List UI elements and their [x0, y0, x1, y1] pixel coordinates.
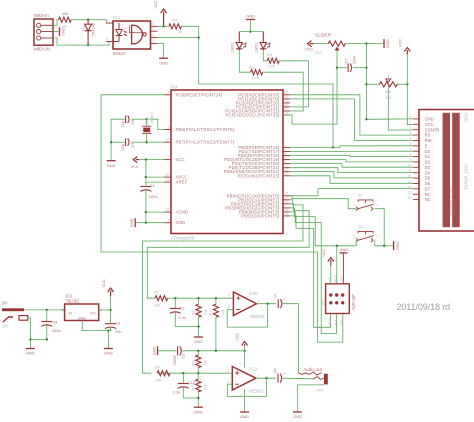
IC1 pin 18 PB4(MISO/PCINT4): [283, 211, 290, 213]
wire R2 to opamp plus: [168, 297, 234, 299]
resistor R6 1.2k: [267, 58, 279, 63]
ground stage2 divider: [194, 406, 203, 408]
op-amp U IC2A NE5532: [232, 367, 256, 391]
svg-text:8: 8: [153, 22, 155, 26]
svg-text:6N137: 6N137: [113, 51, 126, 56]
ground midi: [59, 27, 61, 36]
capacitor C11 330n: [46, 310, 48, 321]
svg-text:78L05Z: 78L05Z: [66, 298, 80, 303]
svg-text:5: 5: [153, 39, 155, 43]
svg-text:R13: R13: [192, 384, 196, 391]
connector DIS1 LCD body: [419, 110, 474, 232]
node feedback junction 1: [266, 303, 268, 305]
svg-text:R10: R10: [209, 309, 213, 316]
svg-text:SLIDER: SLIDER: [315, 32, 331, 37]
wire bias rail: [182, 350, 244, 352]
capacitor C6 22p: [125, 116, 127, 124]
wire xtal gnd down: [110, 142, 112, 160]
svg-text:C3: C3: [181, 354, 185, 359]
resistor R2 10k: [155, 296, 168, 301]
svg-text:MOSI: MOSI: [333, 274, 337, 282]
wire PD2 to LCD D1: [290, 156, 413, 157]
wire PB3 MOSI to ISP: [290, 208, 337, 284]
wire jack sleeve to gnd: [298, 385, 324, 412]
svg-text:D7: D7: [425, 186, 431, 191]
svg-text:VCC: VCC: [176, 157, 185, 162]
svg-text:1N4148: 1N4148: [92, 23, 96, 36]
svg-text:9V: 9V: [2, 301, 9, 306]
svg-text:D6: D6: [425, 181, 431, 186]
svg-text:22p: 22p: [121, 144, 125, 150]
IC1 pin 28 PC5(ADC5/SCL/PCINT13): [283, 114, 290, 116]
node AVCC junction: [145, 176, 147, 178]
wire 9V to regulator: [24, 309, 65, 311]
svg-text:8: 8: [168, 219, 170, 223]
wire feedback loop 1: [227, 304, 267, 327]
DIS1 pin 8 D1: [413, 156, 419, 158]
svg-text:MISO: MISO: [328, 317, 332, 325]
node LCD gnd junction: [365, 118, 367, 120]
node S2 gnd junction: [383, 245, 385, 247]
wire VCC arrow stem: [110, 296, 112, 310]
IC1 pin 26 PC3(ADC3/PCINT11): [283, 106, 290, 108]
capacitor C1 100n: [140, 186, 151, 188]
svg-text:16: 16: [408, 196, 412, 200]
svg-text:GND: GND: [194, 339, 203, 344]
svg-text:GND: GND: [194, 409, 203, 414]
connector SV1 AVR ISP body: [326, 284, 350, 314]
op-amp U IC4 6N137 optocoupler body: [113, 21, 151, 49]
wire ISP GND stem: [342, 253, 344, 284]
switch S2: [358, 231, 373, 234]
svg-text:C1: C1: [150, 183, 156, 188]
IC1 pin 19 PB5(SCK/PCINT5): [283, 215, 290, 217]
node C7 gnd junction: [365, 67, 367, 69]
wire VCC vertical to C1: [145, 160, 147, 187]
svg-text:DIS1: DIS1: [464, 112, 469, 122]
svg-text:2011/09/18 rd: 2011/09/18 rd: [397, 302, 451, 312]
svg-text:10: 10: [166, 138, 170, 142]
IC4 internal gate: [132, 25, 143, 44]
capacitor C4 coupling: [277, 299, 279, 308]
svg-text:7: 7: [168, 155, 170, 159]
svg-text:MIDI-IN: MIDI-IN: [34, 47, 50, 52]
svg-text:GND: GND: [240, 414, 249, 419]
svg-text:JP3: JP3: [317, 388, 324, 393]
capacitor C8 100u: [110, 310, 112, 324]
wire PB1 to stage2 R8: [143, 200, 304, 373]
wire PD3 to LCD D2: [290, 160, 413, 162]
wire PD5 to LCD D4: [290, 168, 413, 173]
IC1 pin 21 AREF: [164, 181, 171, 183]
svg-text:LED2: LED2: [231, 43, 235, 53]
svg-text:NC: NC: [425, 192, 431, 197]
wire PD4 to LCD D3: [290, 164, 413, 168]
svg-text:PB7(XTAL2/TOSC2/PCINT7): PB7(XTAL2/TOSC2/PCINT7): [176, 140, 235, 145]
IC1 pin 11 PD5(T1/OC0B/PCINT21): [283, 167, 290, 169]
svg-text:VCC: VCC: [235, 333, 240, 341]
svg-text:1: 1: [168, 91, 170, 95]
svg-text:10k: 10k: [204, 309, 208, 315]
wire PD7 to LCD D6: [290, 176, 413, 184]
svg-text:PC6(RESET/PCINT14): PC6(RESET/PCINT14): [176, 92, 223, 97]
wire GND pin: [146, 222, 164, 224]
capacitor C3 330nF: [177, 346, 179, 355]
resistor R10 10k: [215, 298, 217, 304]
svg-text:330nF: 330nF: [173, 354, 177, 365]
DIS1 pin 16 NC: [413, 199, 419, 201]
svg-text:10k: 10k: [154, 303, 160, 308]
IC1 pin 4 PD2(INT0/PCINT18): [283, 155, 290, 157]
node wiper C7 junction: [336, 67, 338, 69]
supply VCC optocoupler: [161, 9, 167, 26]
wire AREF: [146, 181, 164, 183]
wire 9V return to gnd: [28, 318, 31, 348]
DIS1 pin 4 RS: [413, 134, 419, 136]
svg-text:Audio out: Audio out: [304, 367, 323, 372]
svg-text:GND: GND: [129, 218, 134, 227]
wire MIDI pin3 to IC4 pin3: [53, 38, 113, 45]
wire R1 to D1 to IC4 pin2: [71, 20, 113, 23]
svg-text:ATmega168: ATmega168: [171, 235, 195, 240]
svg-text:R12: R12: [315, 50, 322, 55]
wire VCC down to LCD VCC pin: [407, 54, 413, 125]
IC4 pin 8 stub: [151, 25, 158, 27]
wire C1 to AGND: [145, 190, 147, 222]
wire gnd to C3: [158, 350, 177, 352]
svg-text:GND: GND: [339, 275, 343, 283]
svg-text:NE5532: NE5532: [250, 314, 266, 319]
wire GND to LED rail: [249, 20, 251, 32]
node C11 bottom junction: [46, 338, 48, 340]
svg-text:7: 7: [258, 299, 260, 303]
svg-text:C5: C5: [273, 368, 277, 373]
svg-text:VCC: VCC: [305, 47, 313, 52]
wire PD0 to LCD E: [290, 146, 413, 148]
IC1 pin 14 PB0(ICP1/CLKO/PCINT0): [283, 195, 290, 197]
ground switches: [393, 241, 395, 250]
DIS1 pin 12 D5: [413, 177, 419, 179]
wire gnd down: [107, 331, 109, 349]
supply VCC slider: [308, 41, 314, 47]
wire IC4 pin6 output: [158, 37, 199, 39]
node C2 junction: [174, 297, 176, 299]
svg-text:VO: VO: [90, 310, 96, 315]
svg-text:GND: GND: [104, 351, 113, 356]
connector JP1 MIDI-in: [34, 19, 53, 45]
svg-text:JP2: JP2: [2, 324, 9, 329]
svg-text:C4: C4: [274, 294, 278, 299]
svg-text:3.3n: 3.3n: [172, 390, 180, 395]
wire LED2 to R5: [239, 50, 250, 72]
node RXD joins PD0 row: [332, 146, 334, 148]
svg-text:R11: R11: [192, 359, 196, 366]
svg-text:3: 3: [410, 126, 412, 130]
DIS1 pin 15 NC: [413, 193, 419, 195]
potentiometer R3 50k contrast: [379, 82, 397, 87]
wire gnd link: [30, 339, 46, 341]
svg-text:C2: C2: [180, 306, 186, 311]
resistor R13 10k: [197, 373, 199, 379]
wire GND to LCD pin1: [366, 118, 412, 120]
svg-text:100n: 100n: [353, 56, 357, 64]
node feedback junction 2: [265, 377, 267, 379]
wire PD1 to LCD D0: [290, 150, 413, 152]
svg-text:15: 15: [408, 191, 412, 195]
node 9V gnd junction: [29, 338, 31, 340]
svg-text:R9: R9: [192, 311, 196, 316]
IC4 pin 3 stub: [106, 41, 113, 43]
svg-text:C8: C8: [115, 321, 121, 326]
svg-text:PC5(ADC5/SCL/PCINT13): PC5(ADC5/SCL/PCINT13): [226, 112, 280, 117]
capacitor C10 3.3n: [182, 373, 184, 383]
node diode bottom junction: [87, 44, 89, 46]
svg-text:AVR ISP: AVR ISP: [351, 294, 356, 311]
ground jack: [293, 411, 302, 413]
wire MIDI pin1 to R1: [53, 20, 59, 26]
svg-text:SCK: SCK: [333, 319, 337, 325]
wire feedback loop 2: [227, 378, 266, 396]
svg-text:GND: GND: [151, 346, 156, 355]
IC1 pin 27 PC4(ADC4/SDA/PCINT12): [283, 110, 290, 112]
wire opamp2 power V- to gnd: [244, 389, 246, 412]
supply VCC rail: [242, 342, 248, 346]
svg-text:R4: R4: [172, 17, 178, 22]
svg-text:10k: 10k: [221, 309, 225, 315]
DIS1 pin 1 GND: [413, 118, 419, 120]
ground regulator: [104, 348, 113, 350]
wire PD6 to LCD D5: [290, 172, 413, 178]
svg-text:20: 20: [166, 173, 170, 177]
ground crystal: [107, 160, 116, 162]
svg-text:GND: GND: [246, 14, 255, 19]
svg-text:D2: D2: [425, 160, 431, 165]
svg-text:28: 28: [285, 111, 289, 115]
svg-text:PB6(XTAL1/TOSC1/PCINT6): PB6(XTAL1/TOSC1/PCINT6): [176, 127, 235, 132]
IC1 pin 2 PD0(RXD/PCINT16): [283, 146, 290, 148]
node RXD junction: [198, 36, 200, 38]
svg-text:RST: RST: [339, 319, 343, 325]
svg-text:1: 1: [257, 374, 259, 378]
wire R12 to GND: [344, 43, 383, 45]
svg-text:2: 2: [283, 298, 287, 300]
svg-text:5: 5: [228, 294, 230, 298]
DIS1 pin 13 D6: [413, 183, 419, 185]
wire C6 to gnd rail: [111, 119, 125, 142]
resistor R6 10k stage2 input: [157, 371, 170, 376]
ground 9V input: [26, 348, 35, 350]
IC1 pin 12 PD6(AIN0/OC0A/PCINT22): [283, 171, 290, 173]
wire R3 right to VCC: [396, 83, 408, 85]
svg-text:C6: C6: [131, 120, 135, 125]
svg-text:LED1: LED1: [255, 43, 259, 53]
node crystal bottom junction: [146, 141, 148, 143]
IC4 pin 2 stub: [106, 22, 113, 24]
DIS1 pin 11 D4: [413, 172, 419, 174]
svg-text:VCC: VCC: [321, 249, 326, 257]
svg-text:GND: GND: [293, 414, 302, 419]
IC1 pin 22 AGND: [164, 211, 171, 213]
node MOSI S2 junction: [336, 245, 338, 247]
supply VCC ISP: [328, 258, 334, 266]
wire R6 to PC3: [279, 61, 308, 107]
wire R4 to RXD net: [182, 26, 199, 37]
node R9 top junction: [197, 297, 199, 299]
svg-text:IC2A: IC2A: [249, 366, 258, 371]
wire S2 right hook: [375, 240, 384, 246]
svg-text:GND: GND: [425, 117, 434, 122]
svg-text:7: 7: [153, 27, 155, 31]
wire opamp2 power V+: [244, 351, 246, 368]
svg-text:R5: R5: [249, 65, 255, 70]
svg-text:C9: C9: [131, 143, 135, 148]
resistor R11 10k: [197, 351, 199, 355]
svg-text:R6: R6: [267, 52, 273, 57]
node R9 C2 gnd junction: [197, 325, 199, 327]
svg-text:MIDI-in: MIDI-in: [34, 13, 49, 18]
svg-text:10u: 10u: [115, 329, 122, 334]
ground bias rail: [157, 346, 159, 355]
IC1 pin 3 PD1(TXD/PCINT17): [283, 151, 290, 153]
node C10 junction: [182, 372, 184, 374]
LED LED2: [236, 32, 242, 51]
wire AVCC: [146, 176, 164, 178]
svg-text:D1: D1: [425, 154, 431, 159]
wire XTAL2 net: [149, 141, 164, 143]
svg-text:D0: D0: [425, 149, 431, 154]
wire gnd row to symbol: [384, 245, 393, 247]
svg-text:S2: S2: [358, 224, 363, 229]
svg-text:CONTR: CONTR: [425, 127, 440, 132]
svg-text:D3: D3: [425, 165, 431, 170]
crystal Q1 16MHz: [143, 128, 150, 133]
node R3 gnd junction: [365, 83, 367, 85]
svg-text:2: 2: [410, 121, 412, 125]
wire R3 wiper to CONTR: [388, 86, 413, 131]
svg-text:GND: GND: [78, 316, 86, 320]
node VCC junction at IC4 pin8: [162, 25, 164, 27]
svg-text:21: 21: [166, 178, 170, 182]
wire S2 left hook: [337, 240, 356, 246]
wire PB5 MISO route to ISP: [290, 216, 331, 327]
ground optocoupler: [159, 57, 168, 59]
svg-text:100n: 100n: [149, 194, 158, 199]
node R13 top junction: [197, 372, 199, 374]
svg-text:13: 13: [285, 172, 289, 176]
wire IC4 pin5 to GND: [158, 44, 164, 58]
svg-text:GND: GND: [340, 247, 349, 252]
svg-text:GND: GND: [385, 39, 390, 48]
wire to gnd symbol: [136, 222, 146, 224]
svg-text:VCC: VCC: [131, 164, 139, 169]
resistor R1 330: [59, 17, 72, 22]
op-amp U IC1 ATmega168 body: [171, 90, 283, 234]
switch S1: [358, 200, 373, 203]
svg-text:1.2k: 1.2k: [267, 64, 275, 69]
IC1 pin 8 GND: [164, 222, 171, 224]
LCD bar right: [452, 113, 460, 227]
diode D1 1N4148: [85, 20, 92, 45]
DIS1 pin 5 RW: [413, 139, 419, 141]
svg-text:3: 3: [227, 368, 229, 372]
svg-text:10k: 10k: [204, 384, 208, 390]
svg-text:22p: 22p: [121, 121, 125, 127]
svg-text:C7: C7: [344, 59, 348, 64]
wire RXD net from opto to PD0: [199, 38, 333, 148]
svg-text:R6: R6: [155, 365, 161, 370]
IC1 pin 23 PC0(ADC0/PCINT8): [283, 94, 290, 96]
IC1 pin 15 PB1(OC1A/PCINT1): [283, 199, 290, 201]
node reg gnd junction: [107, 329, 109, 331]
capacitor C9 22p: [131, 141, 147, 143]
svg-text:TUXGR_16X2: TUXGR_16X2: [464, 163, 469, 190]
node AGND junction: [145, 211, 147, 213]
resistor R4 5k pullup: [169, 24, 182, 29]
op-amp U IC3 78L05Z regulator body: [65, 304, 99, 321]
wire VCC to pin: [139, 159, 164, 161]
svg-text:R2: R2: [154, 289, 160, 294]
svg-text:D5: D5: [425, 176, 431, 181]
svg-text:2: 2: [106, 19, 108, 23]
capacitor C2 3.3n: [174, 298, 176, 308]
wire R5 to PC4: [263, 72, 303, 111]
node crystal top junction: [146, 118, 148, 120]
supply VCC contrast: [404, 48, 410, 55]
wire crystal top to C6: [131, 118, 147, 120]
svg-text:S1: S1: [358, 192, 363, 197]
svg-text:IC1: IC1: [171, 84, 178, 89]
LCD bar left: [443, 113, 450, 227]
svg-text:D1: D1: [82, 26, 86, 31]
svg-text:GND: GND: [395, 241, 400, 250]
svg-text:330: 330: [62, 11, 69, 16]
svg-text:E: E: [425, 143, 428, 148]
node R12 gnd junction: [365, 42, 367, 44]
supply VCC regulator output: [108, 288, 114, 296]
wire opamp2 output: [256, 377, 276, 379]
op-amp U IC2B NE5532: [233, 292, 256, 316]
wire S1 right down to gnd row: [375, 209, 384, 246]
svg-text:5k: 5k: [178, 29, 182, 34]
svg-text:LCD DISPLAY 16x2: LCD DISPLAY 16x2: [450, 187, 454, 216]
svg-text:PB5(SCK/PCINT5): PB5(SCK/PCINT5): [241, 213, 280, 218]
wire C5 to jack ring: [283, 377, 314, 380]
DIS1 pin 6 E: [413, 145, 419, 147]
node VCC junction: [145, 158, 147, 160]
svg-text:22: 22: [166, 208, 170, 212]
IC4 pin 6 stub: [151, 37, 158, 39]
svg-text:AGND: AGND: [176, 210, 189, 215]
wire PB4 SCK route to ISP: [290, 212, 337, 334]
node diode top junction: [87, 19, 89, 21]
wire PB0 to LCD D7: [290, 189, 413, 196]
DIS1 pin 3 CONTR: [413, 129, 419, 131]
node stage2 gnd junction: [197, 397, 199, 399]
wire VCC to R4: [164, 25, 169, 27]
ground opamp2: [240, 411, 249, 413]
potentiometer R12 SLIDER: [314, 43, 329, 45]
ground LEDs top: [246, 19, 255, 21]
capacitor C7 100n: [347, 64, 349, 73]
svg-text:D4: D4: [425, 170, 431, 175]
wire R3 left: [366, 83, 380, 85]
node GND junction left of MCU: [145, 222, 147, 224]
node VCC out junction: [109, 309, 111, 311]
svg-text:VCC: VCC: [101, 279, 106, 287]
svg-text:VCC: VCC: [425, 122, 434, 127]
svg-text:6: 6: [153, 33, 155, 37]
svg-text:C11: C11: [51, 320, 59, 325]
